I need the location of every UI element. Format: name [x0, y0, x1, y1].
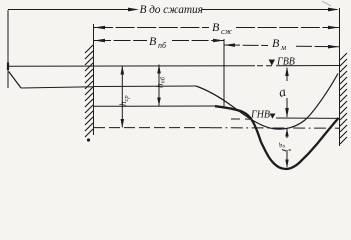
faint top-right scan artifact	[322, 1, 331, 6]
arrow Bszh right	[328, 26, 339, 30]
arrow Bm right	[328, 45, 339, 49]
dimension line Bm	[224, 45, 339, 47]
arrow Bm left	[224, 43, 235, 47]
dimension line Bpb	[94, 40, 224, 42]
arrow a down	[285, 108, 289, 118]
svg-text:ГНВ: ГНВ	[250, 110, 270, 121]
wire bed line	[94, 105, 217, 107]
arrow h_sr top	[121, 66, 125, 75]
wire GVV water level line	[8, 65, 339, 68]
dimension vertical hx between dashdot and scour bottom	[286, 128, 288, 167]
wire GNV level line	[276, 117, 339, 119]
svg-text:пб: пб	[158, 41, 167, 50]
svg-text:ГВВ: ГВВ	[276, 57, 295, 68]
dimension line Bszh	[94, 27, 339, 29]
right wall line	[339, 8, 341, 146]
left wall base dot	[87, 138, 90, 141]
left wall line	[93, 24, 95, 135]
wire scour hole bed curve	[215, 106, 339, 169]
arrow mid of B line	[128, 8, 139, 12]
node boundary vertical x224	[223, 39, 225, 106]
arrow hx down	[285, 160, 288, 169]
arrow h_pb bottom	[157, 98, 161, 107]
wire left bank slope	[9, 72, 21, 89]
arrow h_sr bottom	[121, 119, 125, 127]
level mark triangle GNV	[270, 114, 276, 119]
wire left extension edge vertical	[7, 10, 9, 88]
arrow a up	[285, 67, 289, 77]
wire water surface drawdown curve	[196, 74, 338, 130]
wire floodplain surface line	[21, 86, 196, 88]
right wall hatch	[340, 53, 347, 144]
arrow h_pb top	[157, 65, 161, 74]
arrow hx up	[285, 128, 288, 136]
svg-text:В: В	[149, 34, 157, 48]
wire GVV small dashes under label	[257, 65, 272, 67]
dimension vertical a between GVV and GNV	[286, 68, 288, 117]
dimension vertical h_sr	[121, 66, 123, 128]
wire GNV left dashes	[231, 118, 252, 120]
arrow Bpb left	[94, 39, 105, 43]
tiny scan marks near hx	[282, 150, 291, 152]
svg-text:В: В	[272, 36, 280, 50]
ink blob at left water line end	[7, 63, 9, 71]
arrow Bpb right	[213, 39, 224, 43]
dimension vertical h_pb	[158, 65, 160, 107]
dimension line B do szhatiya	[8, 9, 337, 11]
arrow Bszh left	[94, 26, 105, 30]
svg-text:м: м	[280, 43, 286, 52]
svg-text:В: В	[212, 20, 220, 34]
level mark triangle GVV	[269, 60, 275, 66]
wire dash-dot lowered bed line	[94, 127, 210, 129]
left wall hatch	[85, 45, 93, 137]
arrow right end of B line	[328, 8, 339, 12]
svg-text:В до сжатия: В до сжатия	[140, 4, 203, 16]
svg-text:сж: сж	[221, 27, 232, 36]
